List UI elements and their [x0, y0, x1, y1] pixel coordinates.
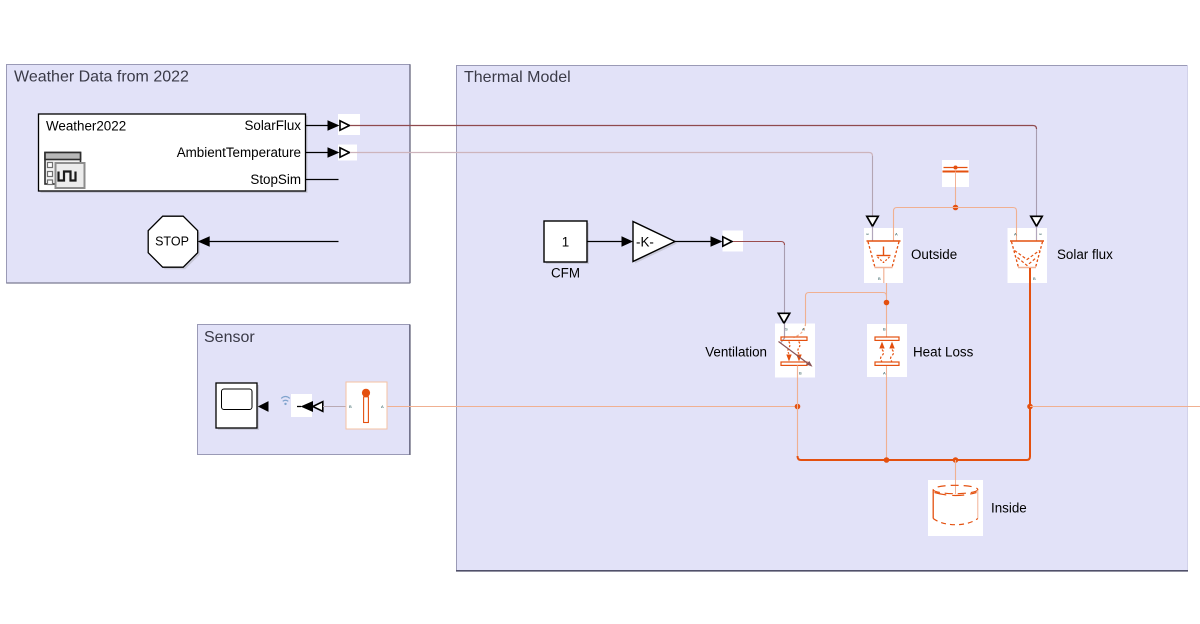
wire Inside stub	[955, 460, 957, 480]
block Gain -K-	[633, 222, 677, 264]
svg-text:CFM: CFM	[551, 266, 580, 281]
arrow Simulink-PS hollow	[723, 237, 732, 246]
junction dot Inside bus	[953, 457, 959, 463]
wire branch to Ventilation top	[806, 293, 887, 324]
wire converter to thermometer	[323, 406, 346, 408]
svg-text:A: A	[895, 232, 898, 237]
area Sensor	[198, 325, 411, 456]
junction dot reference	[953, 205, 959, 211]
block Temperature Sensor (thermometer)	[346, 382, 387, 429]
svg-text:B: B	[349, 404, 352, 409]
svg-text:Sensor: Sensor	[204, 329, 255, 346]
junction dot right tap	[1027, 404, 1033, 410]
wire CFM to gain	[587, 241, 623, 243]
wire top manifold between Outside and Solar flux	[894, 208, 1017, 242]
svg-text:Weather2022: Weather2022	[46, 119, 126, 134]
arrow gain input	[622, 236, 634, 246]
icon spreadsheet window inside Weather2022	[45, 153, 85, 189]
wire thermometer to thermal area	[388, 406, 797, 408]
wire AmbientTemperature stub	[305, 152, 329, 154]
wire Ventilation down	[797, 378, 799, 460]
svg-text:Inside: Inside	[991, 501, 1027, 516]
block Weather2022 (From Spreadsheet)	[39, 114, 308, 193]
area Weather Data from 2022	[7, 65, 411, 284]
svg-text:-K-: -K-	[636, 235, 654, 250]
svg-text:Ventilation: Ventilation	[705, 345, 767, 360]
svg-text:B: B	[878, 276, 881, 281]
arrow SolarFlux hollow	[340, 121, 350, 130]
wire right tap to edge	[1030, 406, 1200, 408]
arrow Simulink-PS filled	[711, 236, 723, 246]
wire gain to converter	[675, 241, 712, 243]
svg-text:∞: ∞	[866, 232, 869, 237]
junction dot sensor tap	[795, 404, 801, 410]
arrow AmbientTemperature hollow	[340, 148, 350, 157]
badge square Simulink-PS converter	[723, 231, 744, 252]
svg-text:SolarFlux: SolarFlux	[244, 118, 301, 133]
block Ventilation	[775, 324, 815, 378]
wire converter to Ventilation port	[733, 242, 785, 246]
arrow converter filled	[301, 401, 314, 412]
svg-text:Heat Loss: Heat Loss	[913, 345, 974, 360]
connection triangle above Outside	[867, 216, 878, 241]
svg-text:A: A	[883, 371, 886, 376]
wire SolarFlux drop	[1036, 129, 1038, 216]
junction dot below Outside	[884, 300, 890, 306]
wire to STOP	[208, 241, 339, 243]
block Heat Loss	[867, 324, 907, 377]
block Thermal Reference	[942, 160, 969, 187]
wire Outside bottom to Heat Loss	[886, 283, 888, 324]
svg-text:B: B	[883, 327, 886, 332]
badge square SolarFlux	[338, 114, 360, 135]
connection triangle above Solar flux	[1031, 216, 1042, 241]
svg-text:STOP: STOP	[155, 235, 189, 249]
badge square AmbientTemperature	[338, 145, 357, 161]
wire reference to manifold	[955, 187, 957, 206]
svg-text:A: A	[802, 327, 805, 332]
svg-text:S: S	[785, 327, 788, 332]
area Thermal Model	[456, 65, 1188, 571]
block Solar flux	[1008, 228, 1048, 283]
wire SolarFlux stub	[305, 125, 329, 127]
block CFM constant	[544, 221, 589, 281]
svg-text:∞: ∞	[1039, 232, 1042, 237]
svg-text:Weather Data from 2022: Weather Data from 2022	[14, 69, 189, 86]
block Outside	[864, 228, 903, 283]
svg-text:StopSim: StopSim	[250, 172, 301, 187]
svg-text:AmbientTemperature: AmbientTemperature	[177, 145, 301, 160]
block STOP	[148, 216, 200, 269]
arrow scope input port	[258, 401, 269, 412]
svg-text:Solar flux: Solar flux	[1057, 247, 1113, 262]
junction dot Heat Loss bus	[884, 457, 890, 463]
wire Heat Loss down	[886, 377, 888, 459]
connection triangle above Ventilation	[778, 313, 789, 323]
arrow SolarFlux filled	[328, 120, 340, 130]
arrow into STOP	[198, 236, 210, 246]
svg-text:B: B	[1033, 276, 1036, 281]
wire converter stub	[297, 406, 301, 408]
svg-text:A: A	[1014, 232, 1017, 237]
wire AmbientTemperature signal to Outside block	[350, 153, 873, 157]
badge square PS-Simulink converter	[291, 394, 312, 417]
svg-text:1: 1	[562, 235, 569, 250]
svg-text:B: B	[799, 371, 802, 376]
svg-text:Thermal Model: Thermal Model	[464, 69, 571, 86]
block Scope	[216, 383, 259, 430]
svg-text:Outside: Outside	[911, 247, 957, 262]
wire drop to Ventilation triangle	[784, 245, 786, 313]
wire SolarFlux signal to Solar flux block	[350, 126, 1037, 130]
wire bottom bus	[798, 268, 1031, 460]
wire AmbientTemperature drop	[872, 156, 874, 216]
icon wireless	[281, 397, 290, 406]
block Inside (thermal mass)	[928, 480, 983, 536]
arrow converter hollow	[313, 402, 323, 412]
wire StopSim dangling	[305, 179, 339, 181]
svg-text:A: A	[381, 404, 384, 409]
arrow AmbientTemperature filled	[328, 147, 340, 157]
